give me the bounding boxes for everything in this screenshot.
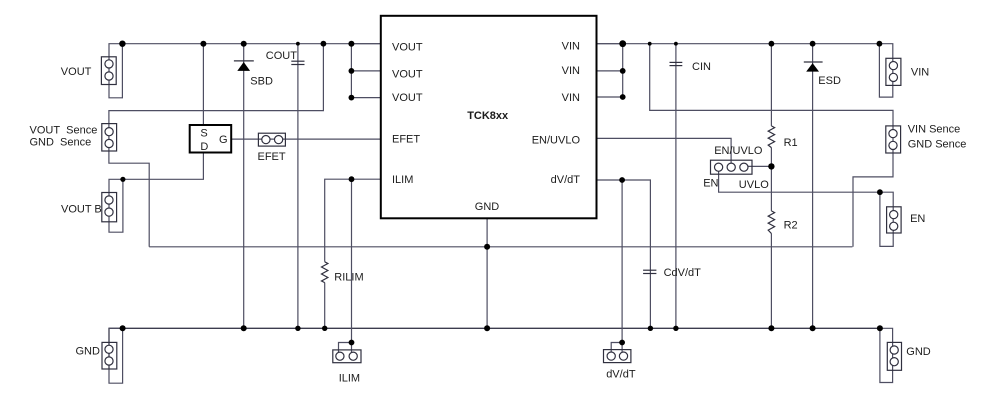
wire IC VIN pin 3 stub xyxy=(597,96,623,98)
svg-text:UVLO: UVLO xyxy=(739,179,769,191)
svg-text:GND: GND xyxy=(76,345,101,357)
capacitor CdV/dT xyxy=(643,270,656,273)
svg-text:VOUT Sence: VOUT Sence xyxy=(30,125,98,137)
wire GND left connector loop xyxy=(109,327,123,329)
resistor R1 xyxy=(768,126,774,148)
svg-text:D: D xyxy=(200,141,208,153)
node IC GND tap on sense rail xyxy=(484,244,490,250)
svg-text:dV/dT: dV/dT xyxy=(606,368,636,380)
wire top VOUT rail left segment xyxy=(109,44,381,85)
connector J11 EN header xyxy=(887,207,902,233)
wire VOUT B rail xyxy=(109,153,203,222)
op-amp U1 main IC TCK8xx box xyxy=(381,16,597,219)
node VIN bus top junction xyxy=(619,40,626,47)
connector J8 EN/UVLO 3-pin header xyxy=(711,160,753,174)
svg-text:R1: R1 xyxy=(784,137,798,149)
svg-text:ESD: ESD xyxy=(818,75,841,87)
svg-text:GND: GND xyxy=(475,201,500,213)
capacitor CIN xyxy=(670,62,683,65)
node FET S tap on VOUT rail xyxy=(200,41,206,47)
node RILIM on GND rail xyxy=(322,326,327,331)
node COUT tap on VOUT rail xyxy=(296,42,300,46)
node ESD tap on VIN rail xyxy=(810,41,816,47)
wire IC VOUT pin 2 stub xyxy=(351,70,380,72)
node CdV/dT on GND rail xyxy=(648,326,653,331)
connector J7 dV/dT header xyxy=(604,350,631,363)
diode SBD xyxy=(234,61,254,71)
wire VOUT sence rail xyxy=(109,44,324,151)
svg-text:RILIM: RILIM xyxy=(334,271,363,283)
wire IC VOUT pin bus xyxy=(350,44,352,98)
wire R2 lower lead xyxy=(770,234,772,329)
connector J9 VIN header xyxy=(886,58,901,85)
svg-text:SBD: SBD xyxy=(250,76,273,88)
node VIN connector junction xyxy=(877,41,883,47)
wire top VIN rail right segment xyxy=(597,44,893,86)
svg-text:GND Sence: GND Sence xyxy=(908,139,967,151)
node VOUT bus pin2 junction xyxy=(349,68,355,74)
svg-text:GND Sence: GND Sence xyxy=(30,136,92,148)
node VOUT sence tap on VOUT rail xyxy=(321,41,327,47)
node COUT on GND rail xyxy=(295,326,300,331)
wire R1-R2 junction leads xyxy=(770,148,772,211)
wire bottom GND rail xyxy=(109,328,880,369)
wire UVLO tap to divider xyxy=(744,165,772,167)
wire bottom GND rail right stub to GND connector xyxy=(880,328,893,370)
wire EFET gate line from S/D box to IC xyxy=(231,138,381,140)
wire IC VIN pin 1 stub xyxy=(597,43,623,45)
node VOUT B rail junction xyxy=(120,177,125,182)
connector J6 ILIM header xyxy=(333,350,361,363)
svg-text:ILIM: ILIM xyxy=(392,174,413,186)
node dV/dT connector junction xyxy=(619,340,625,346)
svg-text:VIN: VIN xyxy=(562,65,580,77)
svg-text:EFET: EFET xyxy=(258,151,286,163)
node VOUT rail junction at VOUT connector xyxy=(119,41,125,47)
svg-text:VOUT: VOUT xyxy=(61,66,92,78)
svg-text:ILIM: ILIM xyxy=(339,373,360,385)
svg-text:VIN: VIN xyxy=(562,40,580,52)
svg-text:dV/dT: dV/dT xyxy=(551,174,581,186)
wire ILIM connector loop xyxy=(339,343,352,357)
wire EFET S pin to top rail xyxy=(202,44,204,125)
node CIN on GND rail xyxy=(673,326,678,331)
wire ESD branch xyxy=(812,44,814,329)
svg-text:GND: GND xyxy=(906,346,931,358)
node ILIM branch junction xyxy=(349,176,355,182)
node VIN bus pin2 junction xyxy=(620,68,626,74)
resistor RILIM xyxy=(322,262,328,283)
node VOUT bus top junction xyxy=(348,41,354,47)
wire VIN connector loop xyxy=(879,44,892,97)
node SBD on GND rail xyxy=(241,325,247,331)
node VOUT bus pin3 junction xyxy=(349,95,355,101)
wire GND sence left path xyxy=(109,151,149,247)
svg-text:EN: EN xyxy=(910,213,925,225)
node CIN tap on VIN rail xyxy=(674,42,678,46)
wire GND right connector loop xyxy=(880,328,893,382)
wire dV/dT connector loop xyxy=(611,343,622,357)
resistor R2 xyxy=(768,211,774,234)
node EN connector junction xyxy=(877,189,883,195)
node UVLO divider junction xyxy=(768,163,774,169)
svg-text:VOUT: VOUT xyxy=(392,41,423,53)
node SBD tap on VOUT rail xyxy=(241,41,247,47)
wire ILIM connector drop xyxy=(351,179,353,356)
svg-text:CIN: CIN xyxy=(692,61,711,73)
connector J1 VOUT header xyxy=(101,57,116,85)
wire EN/UVLO pin line xyxy=(597,138,732,167)
svg-text:S: S xyxy=(200,128,207,140)
svg-text:TCK8xx: TCK8xx xyxy=(467,110,509,122)
wire IC VOUT pin 3 stub xyxy=(351,97,380,99)
wire IC VIN pin 2 stub xyxy=(597,70,623,72)
node R2 on GND rail xyxy=(768,325,774,331)
wire CIN branch xyxy=(675,44,677,329)
node GND rail left end xyxy=(120,325,126,331)
connector J4 GND header bottom left xyxy=(102,342,117,369)
svg-text:G: G xyxy=(219,134,228,146)
node ESD on GND rail xyxy=(810,325,816,331)
svg-text:COUT: COUT xyxy=(266,50,297,62)
svg-text:VIN Sence: VIN Sence xyxy=(908,124,961,136)
diode ESD xyxy=(804,62,823,72)
node dV/dT branch junction xyxy=(619,177,625,183)
node VIN sence tap on VIN rail xyxy=(648,42,652,46)
svg-text:EN/UVLO: EN/UVLO xyxy=(714,145,763,157)
wire VIN sence rail xyxy=(650,44,893,153)
svg-text:CdV/dT: CdV/dT xyxy=(664,267,702,279)
svg-text:VIN: VIN xyxy=(562,92,580,104)
connector J12 GND header bottom right xyxy=(887,342,901,370)
connector J10 VIN Sence / GND Sence header xyxy=(886,126,901,153)
node VIN bus pin3 junction xyxy=(620,94,626,100)
svg-text:VOUT: VOUT xyxy=(392,92,423,104)
node R1 tap on VIN rail xyxy=(769,41,775,47)
node ILIM connector junction xyxy=(349,340,355,346)
node GND rail right end xyxy=(877,325,883,331)
transistor Q1 external FET S/D/G box xyxy=(190,125,232,153)
wire EN line xyxy=(719,167,880,192)
svg-text:EN/UVLO: EN/UVLO xyxy=(532,135,581,147)
wire IC GND pin xyxy=(486,218,488,328)
connector J5 EFET header xyxy=(258,133,285,146)
connector J2 VOUT Sence / GND Sence header xyxy=(102,124,117,151)
wire sense ground rail xyxy=(149,246,852,248)
svg-text:R2: R2 xyxy=(784,220,798,232)
connector J3 VOUT B header xyxy=(102,193,117,222)
svg-text:EFET: EFET xyxy=(392,133,420,145)
capacitor COUT xyxy=(291,61,304,64)
wire RILIM lower lead xyxy=(324,283,326,329)
svg-text:EN: EN xyxy=(703,178,718,190)
wire EN connector loop xyxy=(880,192,893,246)
wire ILIM pin line xyxy=(325,179,381,262)
svg-text:VIN: VIN xyxy=(911,66,929,78)
svg-text:VOUT B: VOUT B xyxy=(61,203,102,215)
wire IC VIN pin bus xyxy=(622,44,624,97)
wire dV/dT connector drop xyxy=(621,180,623,356)
wire GND sence right path xyxy=(853,153,893,247)
wire R1 upper lead xyxy=(770,44,772,126)
wire EN connector stub xyxy=(880,192,893,233)
wire VOUT B connector loop xyxy=(109,179,123,232)
node IC GND on GND rail xyxy=(484,325,490,331)
wire IC VOUT pin 1 stub xyxy=(351,43,380,45)
wire VOUT connector loop xyxy=(109,44,122,98)
wire dV/dT pin line xyxy=(597,180,651,328)
wire SBD branch xyxy=(243,44,245,329)
svg-text:VOUT: VOUT xyxy=(392,68,423,80)
wire COUT branch xyxy=(297,44,299,329)
